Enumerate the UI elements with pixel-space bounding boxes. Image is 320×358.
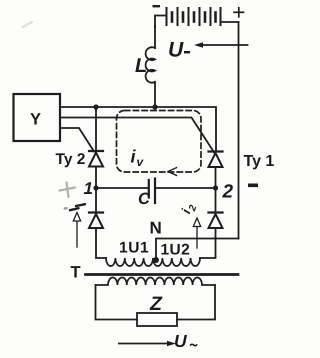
commutation loop dashed box <box>117 111 202 173</box>
wire inductor to top bus <box>154 82 156 107</box>
battery B1 left lead <box>155 16 166 28</box>
node 2 dot <box>213 185 218 190</box>
svg-text:T: T <box>71 264 81 282</box>
diode 1U1 <box>89 213 103 229</box>
wire right rail from battery plus down <box>238 22 240 239</box>
wire Y gate line to Ty1 <box>60 118 215 154</box>
battery B1 minus sign <box>153 5 161 7</box>
svg-text:Ty 2: Ty 2 <box>56 151 86 168</box>
thyristor Ty1 <box>209 152 223 168</box>
svg-text:Ty 1: Ty 1 <box>244 153 275 170</box>
wire node2 to diode 1U2 <box>215 188 217 213</box>
svg-text:U: U <box>168 39 184 62</box>
transformer T core <box>86 273 239 276</box>
svg-text:1: 1 <box>84 179 93 198</box>
battery B1 plus sign <box>234 8 244 17</box>
transformer T primary winding <box>106 258 200 266</box>
wire bus down to Ty2 <box>95 107 97 151</box>
wire battery minus to inductor <box>154 26 156 48</box>
hand drawn plus mark near node 1 <box>60 183 76 198</box>
current arrow i1 (open head) <box>73 213 80 248</box>
wire diode 1U2 to transformer right end <box>200 228 216 258</box>
svg-text:2: 2 <box>222 182 234 203</box>
transformer T secondary winding <box>96 277 216 285</box>
svg-text:Y: Y <box>30 111 41 129</box>
control unit Y box <box>14 94 61 141</box>
node junction dot at bus/Ty2 drop <box>93 104 98 109</box>
capacitor C plates <box>149 179 155 204</box>
faint smudge top-left <box>23 22 32 27</box>
svg-text:1U1: 1U1 <box>119 240 149 257</box>
battery B1 plates <box>167 8 221 25</box>
wire top bus from Y box to Ty1 <box>60 107 216 151</box>
node junction dot at bus/L <box>152 104 157 109</box>
node 1 dot <box>93 185 98 190</box>
svg-text:C: C <box>138 190 151 208</box>
svg-text:Z: Z <box>149 293 163 315</box>
wire node1 to diode 1U1 <box>95 188 97 213</box>
diode 1U2 <box>209 213 223 229</box>
inductor L coil <box>146 47 155 82</box>
wire load loop left <box>96 285 138 320</box>
voltage label U~ arrow (points right) <box>119 341 176 347</box>
voltage label U- arrow (points left) <box>194 42 248 48</box>
junction dot centre tap N <box>153 257 159 263</box>
svg-text:L: L <box>135 55 147 77</box>
wire diode 1U1 to transformer left end <box>96 228 106 258</box>
svg-text:N: N <box>150 219 162 238</box>
label i2 (slanted) <box>178 201 199 217</box>
wire Ty1 to node 2 <box>215 167 217 188</box>
svg-text:1U2: 1U2 <box>161 242 191 259</box>
capacitor C wires <box>96 187 149 189</box>
minus mark near Ty1 <box>248 184 258 188</box>
current arrow i2 (open head) <box>193 218 200 248</box>
loop current iv arrowhead on dashed box <box>168 168 177 176</box>
wire Ty2 to node 1 <box>95 167 97 189</box>
svg-text:U: U <box>174 331 187 351</box>
scribbled-out i1 label <box>65 204 85 210</box>
wire centre tap N to battery plus rail <box>156 239 239 260</box>
load resistor Z box <box>137 313 177 326</box>
thyristor Ty2 <box>89 151 103 167</box>
wire Y gate line to Ty2 <box>60 128 94 152</box>
wire load loop right <box>177 285 215 320</box>
battery B1 right lead <box>221 21 239 23</box>
